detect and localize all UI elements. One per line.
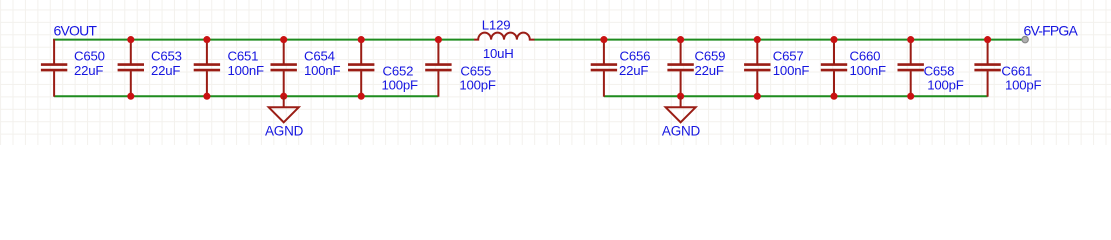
svg-text:100nF: 100nF bbox=[850, 63, 887, 78]
capacitor C659 bbox=[667, 39, 693, 97]
svg-text:AGND: AGND bbox=[265, 123, 304, 138]
svg-text:22uF: 22uF bbox=[151, 63, 180, 78]
svg-text:C653: C653 bbox=[151, 48, 182, 63]
svg-text:22uF: 22uF bbox=[74, 63, 103, 78]
capacitor C656 bbox=[591, 39, 617, 97]
capacitor C654 bbox=[271, 39, 297, 97]
svg-text:100nF: 100nF bbox=[228, 63, 265, 78]
svg-text:C654: C654 bbox=[304, 48, 335, 63]
svg-text:C650: C650 bbox=[74, 48, 105, 63]
junction bbox=[203, 36, 210, 43]
junction bbox=[984, 36, 991, 43]
svg-text:C651: C651 bbox=[228, 48, 259, 63]
capacitor C653 bbox=[118, 39, 144, 97]
inductor L129 bbox=[474, 33, 534, 40]
svg-text:100pF: 100pF bbox=[382, 78, 419, 93]
svg-text:100nF: 100nF bbox=[304, 63, 341, 78]
capacitor C660 bbox=[821, 39, 847, 97]
junction bbox=[280, 93, 287, 100]
junction bbox=[677, 36, 684, 43]
ground AGND bbox=[269, 96, 299, 122]
capacitor C655 bbox=[425, 39, 451, 97]
capacitor C652 bbox=[348, 39, 374, 97]
svg-text:C655: C655 bbox=[460, 63, 491, 78]
junction bbox=[754, 93, 761, 100]
svg-text:L129: L129 bbox=[482, 18, 511, 33]
capacitor C658 bbox=[898, 39, 924, 97]
svg-text:6VOUT: 6VOUT bbox=[54, 22, 98, 38]
svg-text:100pF: 100pF bbox=[927, 78, 964, 93]
svg-text:AGND: AGND bbox=[662, 123, 701, 138]
capacitor C651 bbox=[194, 39, 220, 97]
svg-text:22uF: 22uF bbox=[695, 63, 724, 78]
junction bbox=[127, 93, 134, 100]
node 6V-FPGA bbox=[1022, 36, 1028, 42]
junction bbox=[127, 36, 134, 43]
svg-text:C658: C658 bbox=[924, 63, 955, 78]
wire bbox=[53, 39, 474, 41]
capacitor C657 bbox=[744, 39, 770, 97]
svg-text:6V-FPGA: 6V-FPGA bbox=[1024, 23, 1079, 39]
svg-text:C657: C657 bbox=[773, 48, 804, 63]
wire bbox=[534, 39, 1025, 41]
junction bbox=[600, 36, 607, 43]
junction bbox=[280, 36, 287, 43]
svg-text:C659: C659 bbox=[695, 48, 726, 63]
wire bbox=[604, 95, 988, 97]
junction bbox=[435, 36, 442, 43]
junction bbox=[358, 36, 365, 43]
junction bbox=[830, 36, 837, 43]
wire bbox=[54, 95, 438, 97]
svg-text:C661: C661 bbox=[1001, 63, 1032, 78]
junction bbox=[830, 93, 837, 100]
junction bbox=[203, 93, 210, 100]
junction bbox=[754, 36, 761, 43]
svg-text:C652: C652 bbox=[383, 63, 414, 78]
svg-text:100pF: 100pF bbox=[1005, 78, 1042, 93]
ground AGND bbox=[666, 96, 696, 122]
capacitor C661 bbox=[974, 39, 1000, 97]
capacitor C650 bbox=[41, 39, 67, 97]
junction bbox=[907, 93, 914, 100]
junction bbox=[907, 36, 914, 43]
svg-text:10uH: 10uH bbox=[483, 46, 514, 61]
svg-text:100pF: 100pF bbox=[459, 78, 496, 93]
svg-text:C656: C656 bbox=[620, 48, 651, 63]
svg-text:22uF: 22uF bbox=[619, 63, 648, 78]
svg-text:100nF: 100nF bbox=[773, 63, 810, 78]
junction bbox=[358, 93, 365, 100]
junction bbox=[677, 93, 684, 100]
svg-text:C660: C660 bbox=[850, 48, 881, 63]
